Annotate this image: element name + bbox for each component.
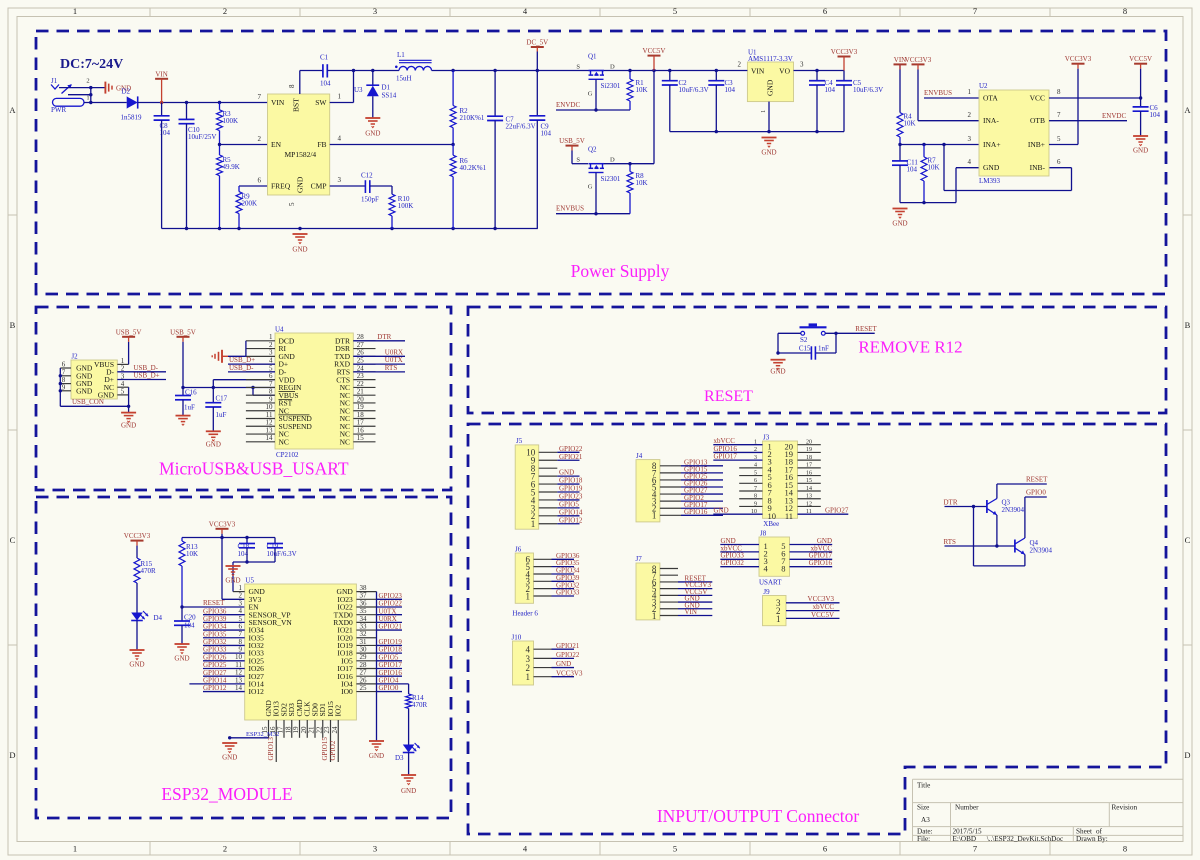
svg-text:LM393: LM393 xyxy=(979,177,1001,185)
svg-text:GPIO21: GPIO21 xyxy=(559,453,583,461)
svg-text:D: D xyxy=(1184,750,1190,760)
svg-text:GPIO16: GPIO16 xyxy=(684,508,708,516)
svg-text:6: 6 xyxy=(1057,158,1061,166)
svg-text:1: 1 xyxy=(73,844,77,854)
svg-text:USB_5V: USB_5V xyxy=(116,328,142,336)
svg-text:ENVBUS: ENVBUS xyxy=(556,205,584,213)
svg-text:25: 25 xyxy=(360,684,368,692)
svg-text:1: 1 xyxy=(531,519,536,529)
svg-text:1uF: 1uF xyxy=(216,411,227,419)
svg-text:2: 2 xyxy=(968,111,972,119)
svg-text:U5: U5 xyxy=(245,577,254,585)
svg-text:GND: GND xyxy=(76,386,93,395)
svg-text:RTS: RTS xyxy=(944,538,957,546)
svg-text:GPIO18: GPIO18 xyxy=(559,477,583,485)
svg-text:GND: GND xyxy=(556,660,571,668)
svg-text:J5: J5 xyxy=(516,437,523,445)
svg-text:GPIO17: GPIO17 xyxy=(714,453,738,461)
svg-text:GND: GND xyxy=(761,149,776,157)
svg-text:Q1: Q1 xyxy=(588,53,597,61)
svg-text:EN: EN xyxy=(271,140,282,149)
svg-text:G: G xyxy=(588,91,593,98)
svg-text:\..\ESP32_DevKit.SchDoc: \..\ESP32_DevKit.SchDoc xyxy=(987,835,1063,843)
svg-text:GND: GND xyxy=(206,441,221,449)
svg-text:3: 3 xyxy=(338,176,342,184)
svg-text:USB_D+: USB_D+ xyxy=(134,372,160,380)
svg-text:104: 104 xyxy=(1150,111,1161,119)
svg-text:2: 2 xyxy=(738,61,742,69)
svg-text:2N3904: 2N3904 xyxy=(1030,547,1053,555)
svg-text:SS14: SS14 xyxy=(382,92,397,100)
svg-text:GND: GND xyxy=(983,163,1000,172)
svg-text:6: 6 xyxy=(62,361,66,369)
svg-text:ENVBUS: ENVBUS xyxy=(924,89,952,97)
svg-text:INB-: INB- xyxy=(1030,163,1046,172)
svg-text:VCC3V3: VCC3V3 xyxy=(1065,55,1092,63)
svg-text:GPIO33: GPIO33 xyxy=(556,589,580,597)
svg-text:xbVCC: xbVCC xyxy=(813,603,835,611)
svg-text:D: D xyxy=(9,750,15,760)
svg-text:PWR: PWR xyxy=(51,106,67,114)
svg-text:INB+: INB+ xyxy=(1028,140,1045,149)
svg-text:D: D xyxy=(610,157,615,164)
svg-text:GPIO12: GPIO12 xyxy=(559,516,583,524)
svg-text:Si2301: Si2301 xyxy=(601,175,621,183)
svg-text:14: 14 xyxy=(235,684,243,692)
svg-text:GND: GND xyxy=(714,507,729,515)
svg-text:470R: 470R xyxy=(412,701,428,709)
svg-text:D2: D2 xyxy=(122,88,131,96)
svg-text:GND: GND xyxy=(129,661,144,669)
svg-text:1nF: 1nF xyxy=(818,344,829,352)
svg-text:10K: 10K xyxy=(928,164,940,172)
svg-text:RTS: RTS xyxy=(385,364,398,372)
svg-text:J6: J6 xyxy=(515,546,522,554)
svg-text:L1: L1 xyxy=(397,51,405,59)
svg-text:REMOVE R12: REMOVE R12 xyxy=(858,338,962,357)
svg-text:470R: 470R xyxy=(141,567,157,575)
svg-text:Drawn By:: Drawn By: xyxy=(1076,835,1108,843)
svg-text:U0RX: U0RX xyxy=(385,348,403,356)
svg-text:1: 1 xyxy=(338,93,342,101)
svg-text:VCC3V3: VCC3V3 xyxy=(831,48,858,56)
svg-text:VCC3V3: VCC3V3 xyxy=(124,532,151,540)
svg-text:GND: GND xyxy=(296,176,305,193)
svg-text:GND: GND xyxy=(121,422,136,430)
svg-text:1: 1 xyxy=(760,110,767,113)
svg-text:11: 11 xyxy=(785,511,793,521)
svg-text:C15: C15 xyxy=(799,344,811,352)
svg-text:A3: A3 xyxy=(921,816,930,824)
svg-text:1: 1 xyxy=(526,591,531,601)
svg-text:104: 104 xyxy=(825,86,836,94)
svg-text:49.9K: 49.9K xyxy=(223,163,240,171)
svg-text:U3: U3 xyxy=(354,86,363,94)
svg-text:10: 10 xyxy=(768,511,777,521)
svg-text:GPIO27: GPIO27 xyxy=(825,507,849,515)
svg-text:1: 1 xyxy=(73,6,77,16)
svg-text:INPUT/OUTPUT Connector: INPUT/OUTPUT Connector xyxy=(657,806,860,826)
svg-text:1: 1 xyxy=(968,88,972,96)
svg-text:Power Supply: Power Supply xyxy=(571,261,670,281)
svg-text:INA+: INA+ xyxy=(983,140,1001,149)
svg-text:3: 3 xyxy=(968,135,972,143)
svg-text:GND: GND xyxy=(222,754,237,762)
svg-text:J9: J9 xyxy=(763,588,770,596)
svg-text:D: D xyxy=(610,64,615,71)
svg-text:2: 2 xyxy=(223,6,227,16)
svg-text:1: 1 xyxy=(776,614,781,624)
svg-text:GND: GND xyxy=(1133,147,1148,155)
svg-text:10K: 10K xyxy=(904,120,916,128)
svg-text:24: 24 xyxy=(331,726,339,734)
svg-text:J1: J1 xyxy=(51,77,58,85)
svg-text:6: 6 xyxy=(823,844,827,854)
svg-text:U4: U4 xyxy=(275,326,284,334)
svg-text:OTB: OTB xyxy=(1030,116,1045,125)
svg-text:GPIO15: GPIO15 xyxy=(321,737,329,761)
svg-text:D1: D1 xyxy=(382,84,391,92)
svg-text:USB_5V: USB_5V xyxy=(559,137,585,145)
svg-text:RESET: RESET xyxy=(855,325,877,333)
svg-text:40.2K%1: 40.2K%1 xyxy=(460,164,487,172)
svg-text:NC: NC xyxy=(279,437,289,446)
svg-text:GND: GND xyxy=(174,655,189,663)
svg-text:C20: C20 xyxy=(184,613,196,621)
svg-text:7: 7 xyxy=(258,93,262,101)
svg-text:7: 7 xyxy=(973,844,977,854)
svg-text:GPIO4: GPIO4 xyxy=(379,676,399,684)
svg-text:10uF/6.3V: 10uF/6.3V xyxy=(853,86,883,94)
svg-text:GPIO0: GPIO0 xyxy=(379,684,399,692)
svg-text:B: B xyxy=(1185,320,1191,330)
svg-text:15uH: 15uH xyxy=(396,75,412,83)
svg-text:5: 5 xyxy=(1057,135,1061,143)
svg-text:8: 8 xyxy=(288,84,296,88)
svg-text:2N3904: 2N3904 xyxy=(1002,506,1025,514)
svg-text:E:\OBD: E:\OBD xyxy=(953,835,977,843)
svg-text:GND: GND xyxy=(292,246,307,254)
svg-text:GPIO32: GPIO32 xyxy=(721,559,745,567)
svg-text:GPIO13: GPIO13 xyxy=(267,737,275,761)
svg-text:Header 6: Header 6 xyxy=(512,610,538,618)
svg-text:VIN: VIN xyxy=(751,67,765,76)
svg-text:Q2: Q2 xyxy=(588,146,597,154)
svg-text:2: 2 xyxy=(223,844,227,854)
svg-text:GPIO23: GPIO23 xyxy=(559,493,583,501)
svg-text:GND: GND xyxy=(766,79,775,96)
svg-text:8: 8 xyxy=(1123,6,1127,16)
svg-text:IO2: IO2 xyxy=(334,705,343,717)
svg-text:15: 15 xyxy=(357,434,365,442)
svg-text:C16: C16 xyxy=(185,389,197,397)
svg-text:IO12: IO12 xyxy=(249,687,265,696)
svg-text:VCC: VCC xyxy=(1030,94,1045,103)
svg-text:RESET: RESET xyxy=(1026,476,1048,484)
svg-text:C: C xyxy=(10,535,16,545)
svg-text:DC_5V: DC_5V xyxy=(526,39,548,47)
svg-text:ESP32_MODULE: ESP32_MODULE xyxy=(161,784,292,804)
svg-text:1uF: 1uF xyxy=(184,404,195,412)
svg-text:2: 2 xyxy=(258,135,262,143)
svg-text:10uF/6.3V: 10uF/6.3V xyxy=(267,550,297,558)
svg-text:DC:7~24V: DC:7~24V xyxy=(60,57,123,72)
svg-text:150pF: 150pF xyxy=(361,196,379,204)
svg-text:VCC3V3: VCC3V3 xyxy=(905,56,932,64)
svg-text:4: 4 xyxy=(338,135,342,143)
svg-text:VCC3V3: VCC3V3 xyxy=(808,595,835,603)
svg-text:XBee: XBee xyxy=(763,520,779,528)
svg-text:GND: GND xyxy=(365,130,380,138)
svg-text:5: 5 xyxy=(673,6,677,16)
svg-text:MicroUSB&USB_USART: MicroUSB&USB_USART xyxy=(159,459,349,479)
svg-text:6: 6 xyxy=(823,6,827,16)
svg-text:INA-: INA- xyxy=(983,116,999,125)
svg-text:ENVDC: ENVDC xyxy=(1102,112,1126,120)
svg-text:File:: File: xyxy=(917,835,930,843)
svg-text:3: 3 xyxy=(800,61,804,69)
svg-text:Title: Title xyxy=(917,782,930,790)
svg-text:10K: 10K xyxy=(636,86,648,94)
svg-text:4: 4 xyxy=(968,158,972,166)
svg-text:8: 8 xyxy=(781,563,785,573)
svg-text:GPIO21: GPIO21 xyxy=(379,623,403,631)
svg-text:C17: C17 xyxy=(216,395,228,403)
svg-text:1: 1 xyxy=(526,672,531,682)
svg-text:GND: GND xyxy=(401,787,416,795)
svg-text:BST: BST xyxy=(292,98,301,112)
svg-text:D3: D3 xyxy=(395,754,404,762)
svg-text:J8: J8 xyxy=(760,530,767,538)
svg-text:VCC5V: VCC5V xyxy=(811,611,834,619)
svg-text:CMP: CMP xyxy=(311,182,327,191)
svg-text:ESP32_M32: ESP32_M32 xyxy=(246,731,279,738)
svg-text:3: 3 xyxy=(373,844,377,854)
svg-text:3: 3 xyxy=(373,6,377,16)
svg-text:7: 7 xyxy=(1057,111,1061,119)
svg-text:Revision: Revision xyxy=(1112,804,1138,812)
svg-text:GPIO21: GPIO21 xyxy=(556,642,580,650)
svg-text:GPIO5: GPIO5 xyxy=(559,500,579,508)
svg-text:GPIO14: GPIO14 xyxy=(559,508,583,516)
svg-text:10K: 10K xyxy=(186,550,198,558)
svg-text:5: 5 xyxy=(673,844,677,854)
svg-text:G: G xyxy=(588,184,593,191)
svg-text:GPIO22: GPIO22 xyxy=(556,651,580,659)
svg-text:VCC5V: VCC5V xyxy=(1129,55,1152,63)
svg-text:U0TX: U0TX xyxy=(385,356,403,364)
svg-text:8: 8 xyxy=(1057,88,1061,96)
svg-text:5: 5 xyxy=(288,202,296,206)
svg-text:GPIO19: GPIO19 xyxy=(559,485,583,493)
svg-text:VIN: VIN xyxy=(271,98,285,107)
svg-text:FB: FB xyxy=(317,140,326,149)
svg-text:C12: C12 xyxy=(361,172,373,180)
svg-text:J3: J3 xyxy=(763,434,770,442)
svg-text:14: 14 xyxy=(266,434,274,442)
svg-text:A: A xyxy=(1184,105,1191,115)
svg-text:100K: 100K xyxy=(398,202,414,210)
svg-text:USB_5V: USB_5V xyxy=(170,328,196,336)
svg-text:1: 1 xyxy=(652,611,657,621)
svg-text:GPIO2: GPIO2 xyxy=(329,740,337,760)
svg-text:GPIO22: GPIO22 xyxy=(559,445,583,453)
svg-text:OTA: OTA xyxy=(983,94,998,103)
svg-text:6: 6 xyxy=(258,177,262,185)
svg-text:GPIO16: GPIO16 xyxy=(809,559,833,567)
svg-text:100K: 100K xyxy=(223,117,239,125)
svg-text:GND: GND xyxy=(559,469,574,477)
svg-text:J4: J4 xyxy=(636,452,643,460)
svg-text:S: S xyxy=(576,157,580,164)
svg-text:VCC3V3: VCC3V3 xyxy=(556,669,583,677)
svg-text:S2: S2 xyxy=(800,336,808,344)
svg-text:VCC3V3: VCC3V3 xyxy=(209,520,236,528)
svg-text:VIN: VIN xyxy=(685,608,697,616)
svg-text:104: 104 xyxy=(907,166,918,174)
svg-text:ENVDC: ENVDC xyxy=(556,101,580,109)
svg-text:NC: NC xyxy=(340,437,350,446)
svg-text:10uF/25V: 10uF/25V xyxy=(188,133,216,141)
svg-text:J7: J7 xyxy=(636,555,643,563)
svg-text:USB_D+: USB_D+ xyxy=(229,356,255,364)
svg-text:Number: Number xyxy=(955,804,979,812)
svg-text:VCC5V: VCC5V xyxy=(643,47,666,55)
svg-text:FREQ: FREQ xyxy=(271,182,291,191)
svg-text:GPIO12: GPIO12 xyxy=(203,684,227,692)
svg-text:VIN: VIN xyxy=(155,70,167,78)
svg-text:1n5819: 1n5819 xyxy=(121,114,143,122)
svg-text:S: S xyxy=(576,64,580,71)
svg-text:C: C xyxy=(1185,535,1191,545)
svg-text:7: 7 xyxy=(62,368,66,376)
svg-text:9: 9 xyxy=(62,383,66,391)
svg-text:104: 104 xyxy=(541,130,552,138)
svg-text:GPIO0: GPIO0 xyxy=(1026,488,1046,496)
svg-text:22uF/6.3V: 22uF/6.3V xyxy=(506,123,536,131)
svg-text:104: 104 xyxy=(725,86,736,94)
svg-text:7: 7 xyxy=(973,6,977,16)
svg-text:DTR: DTR xyxy=(377,333,391,341)
svg-text:AMS1117-3.3V: AMS1117-3.3V xyxy=(748,55,793,63)
svg-text:IO0: IO0 xyxy=(341,687,353,696)
svg-text:2: 2 xyxy=(86,78,89,85)
svg-text:U2: U2 xyxy=(979,82,988,90)
svg-text:210K%1: 210K%1 xyxy=(460,114,485,122)
svg-text:RESET: RESET xyxy=(203,599,225,607)
svg-text:1: 1 xyxy=(86,95,89,102)
svg-text:8: 8 xyxy=(1123,844,1127,854)
svg-text:RESET: RESET xyxy=(704,388,753,405)
svg-text:Si2301: Si2301 xyxy=(601,82,621,90)
svg-text:B: B xyxy=(10,320,16,330)
svg-text:10K: 10K xyxy=(636,179,648,187)
svg-text:VO: VO xyxy=(779,67,790,76)
svg-text:J2: J2 xyxy=(71,353,78,361)
svg-text:USB_CON: USB_CON xyxy=(72,398,104,406)
svg-text:GND: GND xyxy=(369,752,384,760)
svg-text:SW: SW xyxy=(315,98,327,107)
svg-text:USART: USART xyxy=(759,579,782,587)
svg-text:GND: GND xyxy=(770,368,785,376)
svg-text:GND: GND xyxy=(892,220,907,228)
svg-text:USB_D-: USB_D- xyxy=(229,364,254,372)
svg-text:104: 104 xyxy=(184,621,195,629)
svg-text:Size: Size xyxy=(917,804,929,812)
svg-text:C1: C1 xyxy=(320,54,329,62)
svg-text:DTR: DTR xyxy=(944,498,958,506)
svg-text:10uF/6.3V: 10uF/6.3V xyxy=(679,86,709,94)
svg-text:A: A xyxy=(9,105,16,115)
svg-text:D4: D4 xyxy=(154,614,163,622)
svg-text:J10: J10 xyxy=(512,634,522,642)
svg-text:200K: 200K xyxy=(242,200,258,208)
svg-text:104: 104 xyxy=(320,80,331,88)
svg-text:1: 1 xyxy=(652,511,657,521)
svg-text:MP1582/4: MP1582/4 xyxy=(285,150,317,159)
